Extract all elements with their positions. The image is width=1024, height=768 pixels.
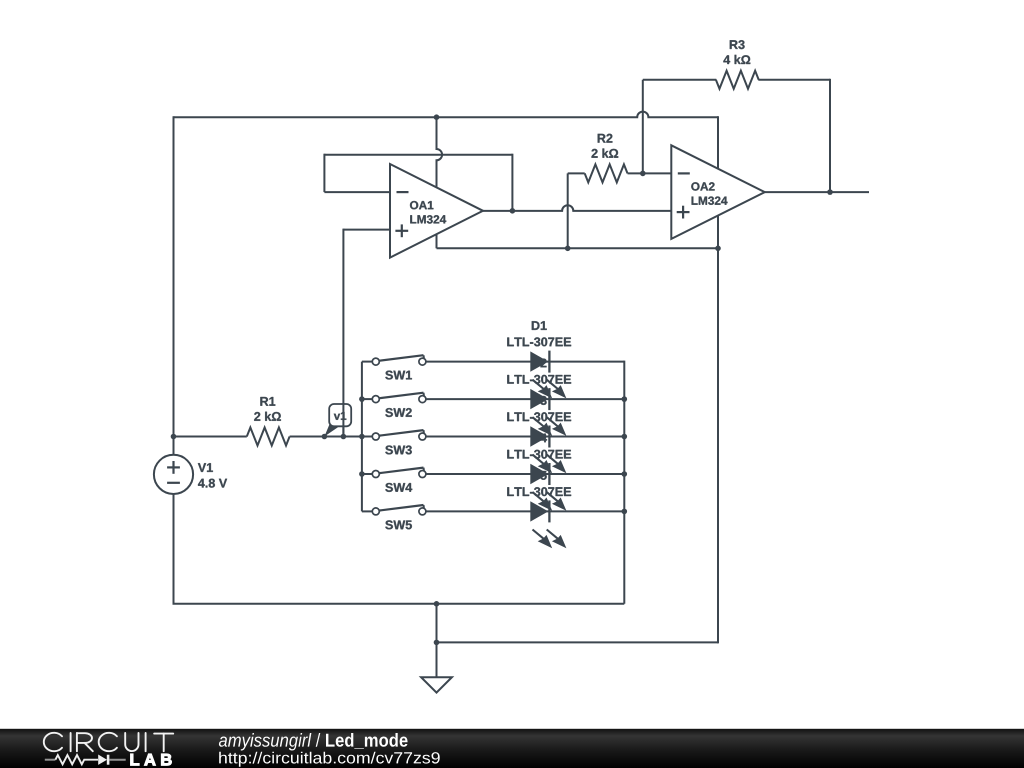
label D5 LTL-307EE <box>507 471 571 496</box>
switch SW1 <box>362 355 426 379</box>
wire SW1 to LED to bus <box>426 361 624 363</box>
node led-bus row2 junction <box>622 396 628 402</box>
op-amp OA2 <box>671 145 765 239</box>
node R2 / R3 junction <box>640 171 646 177</box>
voltage source V1 <box>154 455 227 494</box>
node bus/SW4 junction <box>359 471 365 477</box>
wire negative supply rail <box>437 247 719 249</box>
wire OA1 output to OA2 non-inverting input (hops over R2 riser) <box>483 205 671 211</box>
wire R3 left riser <box>642 80 644 174</box>
ground <box>421 642 452 692</box>
LED D4 <box>530 463 566 511</box>
label D1 LTL-307EE <box>507 321 571 346</box>
LED D2 <box>530 388 566 436</box>
LED D3 <box>530 426 566 474</box>
node bus/SW3 junction <box>359 434 365 440</box>
switch SW4 <box>362 468 426 492</box>
label D3 LTL-307EE <box>507 396 571 421</box>
wire top supply rail <box>174 112 719 118</box>
wire OA2 output <box>765 191 869 193</box>
wire R2 left riser <box>567 173 569 248</box>
op-amp OA1 <box>390 164 483 258</box>
node top-rail / OA1 V+ junction <box>434 114 440 120</box>
wire ground horizontal run <box>437 641 719 643</box>
wire SW3 to LED to bus <box>426 436 624 438</box>
label v1 probe text <box>334 412 347 420</box>
wire LED bus vertical <box>623 361 625 604</box>
switch SW3 <box>362 430 426 454</box>
wire v1 node to switch bus <box>324 436 362 438</box>
node V- rail / OA2 V- junction <box>715 246 721 252</box>
node probe attach point <box>322 434 328 440</box>
wire switch bus vertical <box>361 362 363 512</box>
node ground tee junction <box>434 640 440 646</box>
footer title amyissungirl / Led_mode <box>219 733 408 751</box>
switch SW5 <box>362 505 426 529</box>
label D4 LTL-307EE <box>507 434 571 459</box>
wire OA1 V+ pin (hops over feedback wire) <box>437 117 443 187</box>
wire SW4 to LED to bus <box>426 473 624 475</box>
wire OA1 + riser through probe box <box>342 403 344 437</box>
wire bottom rail <box>173 603 625 605</box>
node bus/SW2 junction <box>359 396 365 402</box>
resistor R1 <box>174 397 325 446</box>
node OA1 output / feedback junction <box>510 208 516 214</box>
resistor R3 <box>643 40 830 89</box>
wire right V- riser <box>717 248 719 643</box>
logo LAB <box>131 754 172 765</box>
wire R3 right riser <box>829 79 831 192</box>
wire SW5 to LED to bus <box>426 510 624 512</box>
resistor R2 <box>568 134 672 183</box>
node OA1 + riser junction <box>341 434 347 440</box>
footer bar <box>0 729 1024 768</box>
node left-rail / R1 junction <box>171 434 177 440</box>
wire OA1 + input riser to v1 node <box>342 229 344 437</box>
wire left rail lower <box>173 494 175 604</box>
wire OA2 V- pin <box>717 216 719 249</box>
probe v1 flag <box>324 404 351 437</box>
wire OA1 non-inverting input <box>343 229 390 231</box>
wire OA2 V+ pin <box>717 116 719 169</box>
label D2 LTL-307EE <box>507 359 571 384</box>
wire ground stem upper <box>436 604 438 643</box>
logo resistor-diode glyph <box>45 755 126 765</box>
node led-bus row3 junction <box>622 434 628 440</box>
switch SW2 <box>362 393 426 417</box>
node led-bus row4 junction <box>622 471 628 477</box>
wire OA1 inverting input <box>324 191 390 193</box>
wire OA1 feedback left riser <box>323 154 325 192</box>
node bottom-rail / ground junction <box>434 601 440 607</box>
footer url <box>219 752 440 767</box>
wire SW2 to LED to bus <box>426 398 624 400</box>
LED D1 <box>530 351 566 399</box>
wire OA1 feedback top <box>324 154 512 156</box>
logo CIRCUIT <box>44 733 173 751</box>
wire left rail upper <box>173 116 175 455</box>
wire OA1 V- pin <box>436 234 438 248</box>
node V- rail / R2 riser junction <box>565 246 571 252</box>
node OA2 output / R3 junction <box>827 189 833 195</box>
LED D5 <box>530 500 566 548</box>
node led-bus row5 junction <box>622 509 628 515</box>
wire OA1 feedback right riser <box>511 154 513 211</box>
